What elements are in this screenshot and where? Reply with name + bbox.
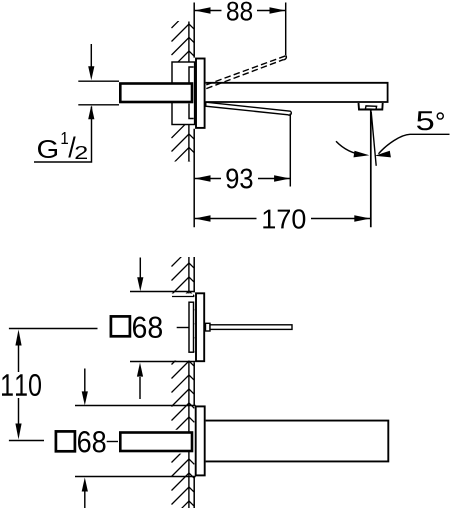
dimension 88 right arrowhead xyxy=(270,7,286,13)
handle 68 text xyxy=(133,317,162,339)
dimension 88 line xyxy=(194,10,285,12)
dimension 110 lower extension line xyxy=(9,440,44,442)
concealed insert upper edge xyxy=(189,67,194,83)
spout plate top extension line xyxy=(75,405,196,407)
aerator insert xyxy=(365,106,376,109)
angle arc right segment with leader to 5deg label xyxy=(379,134,450,154)
wall face line plan view xyxy=(193,257,195,508)
angle arc right arrowhead xyxy=(375,151,391,158)
spout 68 text xyxy=(78,431,106,453)
handle plate bottom arrow (up) xyxy=(139,377,141,399)
dimension 110 upper extension line xyxy=(9,328,98,330)
label 5 degrees xyxy=(417,111,433,130)
dimension 170 line xyxy=(194,218,370,220)
handle 68 leader dash xyxy=(177,327,189,329)
water stream reference vertical line xyxy=(370,111,372,228)
dimension 88 text xyxy=(227,2,252,21)
concealed insert lower edge xyxy=(189,104,194,119)
threaded nipple xyxy=(120,84,192,103)
wall hatch boundary line top-view upper xyxy=(188,22,190,63)
joystick lever bar xyxy=(210,325,292,330)
concealed body behind wall xyxy=(172,62,195,125)
hatch clearance behind handle unit xyxy=(168,294,193,361)
dimension 170 right arrowhead xyxy=(354,215,370,221)
spout plan view xyxy=(206,421,389,462)
dimension 93 right extension line xyxy=(289,114,291,187)
angle arc left segment xyxy=(336,141,364,155)
spout square 68 symbol xyxy=(56,431,75,451)
G 1/2 thread label xyxy=(38,140,57,158)
handle plate top extension line xyxy=(130,291,195,293)
G 1/2 leader underline xyxy=(34,107,92,163)
dimension 93 right arrowhead xyxy=(274,175,290,181)
angle arc left arrowhead xyxy=(354,151,370,158)
spout 68 leader dash xyxy=(107,441,118,443)
lever open tip arc xyxy=(283,56,286,60)
dimension 110 text xyxy=(2,374,41,396)
dimension 93 line xyxy=(194,178,290,180)
spout plate bottom arrow (up) xyxy=(84,492,86,508)
handle square 68 symbol xyxy=(111,316,130,336)
handle plate bottom extension line xyxy=(130,361,195,363)
joystick lever boss xyxy=(206,323,211,331)
G 1/2 lower arrowhead pointing up xyxy=(88,105,94,119)
handle plate top arrow (down) xyxy=(139,258,141,279)
G 1/2 upper arrowhead pointing down xyxy=(88,66,94,80)
wall hatching top-view upper band xyxy=(172,11,195,83)
wall hatching plan view xyxy=(172,249,195,508)
dimension 110 lower arrowhead (down) xyxy=(15,424,21,440)
wall hatch boundary line plan view xyxy=(188,257,190,508)
wall hatching top-view lower band xyxy=(172,121,195,179)
supply pipe thin lines xyxy=(78,81,119,105)
dimension 110 line xyxy=(18,345,20,424)
lever handle closed position xyxy=(206,102,292,115)
lever handle open position (dashed) xyxy=(206,56,286,89)
dimension 93 text xyxy=(226,169,252,189)
handle unit top tick xyxy=(172,296,194,298)
dimension 170 text xyxy=(263,209,305,228)
dimension 110 upper arrowhead (up) xyxy=(15,330,21,346)
supply nipple plan view xyxy=(120,433,192,452)
dimension 93 left arrowhead xyxy=(195,175,211,181)
handle escutcheon plate plan view xyxy=(196,293,204,361)
aerator xyxy=(359,103,383,110)
dimension 88 left arrowhead xyxy=(195,7,211,13)
handle rough-in box behind wall xyxy=(189,302,194,352)
spout side view xyxy=(206,83,388,102)
dimension 88 right extension line xyxy=(285,3,287,56)
spout plate top arrow (down) xyxy=(84,369,86,393)
water stream 5 degree line xyxy=(371,112,376,166)
wall face line top view xyxy=(193,3,195,228)
wall hatch boundary line top-view lower xyxy=(188,125,190,162)
spout escutcheon plate plan view xyxy=(196,406,205,475)
G 1/2 upper leader line xyxy=(90,44,92,67)
spout plate bottom extension line xyxy=(75,476,196,478)
dimension 170 left arrowhead xyxy=(195,215,211,221)
escutcheon plate side view xyxy=(196,59,205,128)
